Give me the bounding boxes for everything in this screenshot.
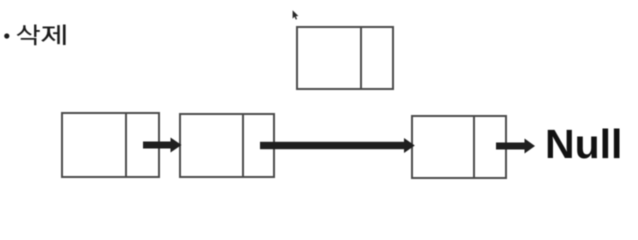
node N3 (411, 115, 507, 179)
node N1 (61, 112, 160, 178)
node N3 pointer-field divider (473, 117, 475, 177)
arrow N2 -> N3 (long) (260, 138, 415, 153)
text 삭제 (Korean: delete) glyph 삭 (17, 25, 40, 46)
node N2 (179, 113, 275, 178)
node N2 pointer-field divider (242, 115, 244, 176)
arrow N3 -> Null (496, 139, 535, 154)
node N0 pointer-field divider (360, 28, 362, 88)
node N0 (detached top node) (296, 26, 394, 90)
mouse cursor (293, 10, 299, 19)
bullet of list item (4, 33, 9, 38)
node N1 pointer-field divider (125, 114, 127, 176)
text 삭제 (Korean: delete) glyph 제 (41, 25, 65, 46)
text Null (545, 120, 622, 168)
arrow N1 -> N2 (143, 138, 182, 153)
